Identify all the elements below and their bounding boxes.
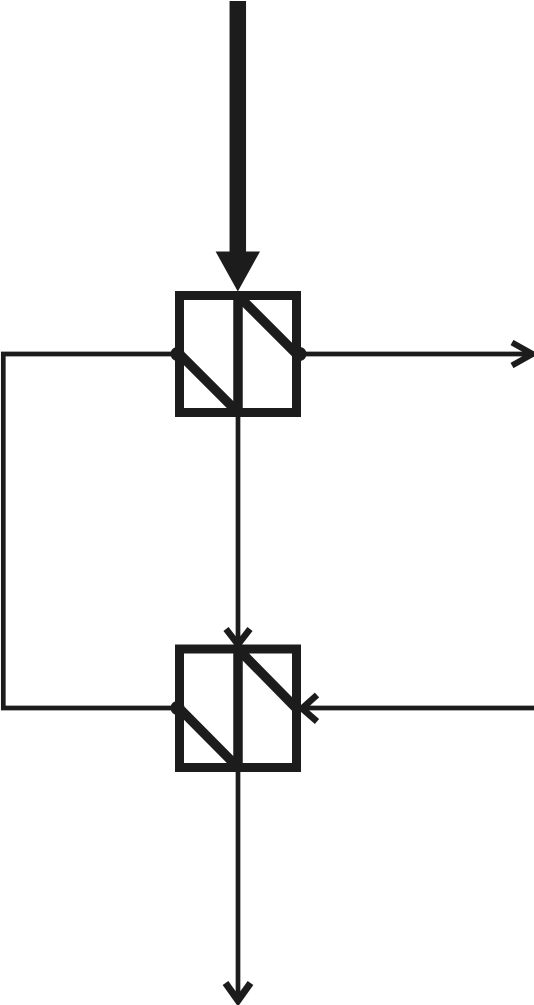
mixer M1 upper-right diagonal [238, 296, 297, 355]
wire: M1 to M2 vertical connector [236, 417, 241, 643]
arrowhead right output [512, 343, 533, 366]
junction dot M1 left [171, 347, 185, 361]
mixer box M2 outline [180, 649, 297, 768]
mixer box M1 outline [180, 296, 297, 413]
thick input arrow shaft [230, 1, 247, 256]
mixer M2 lower-left diagonal [180, 709, 239, 768]
arrowhead into M2 right [302, 695, 317, 722]
junction dot M2 left [171, 701, 185, 715]
junction dot M1 right [293, 347, 307, 361]
wire: M2 bottom output [236, 772, 241, 997]
wire: left feedback loop [3, 354, 175, 708]
thick input arrowhead [216, 252, 260, 292]
wire: M1 right output [301, 352, 527, 357]
mixer M2 center divider [233, 645, 243, 772]
arrowhead bottom output [226, 983, 251, 1001]
mixer M1 lower-left diagonal [180, 354, 239, 413]
mixer M1 center divider [233, 291, 243, 417]
wire: M2 right input [305, 706, 534, 711]
arrowhead into M2 top [226, 629, 250, 645]
mixer M2 upper-right diagonal [238, 649, 297, 709]
